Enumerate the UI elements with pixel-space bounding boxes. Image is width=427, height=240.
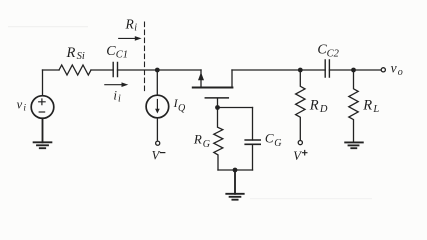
Ri arrow [119,36,142,41]
label V plus [293,149,302,163]
capacitor CC2 [325,60,329,77]
svg-text:V: V [152,149,161,163]
faint scan artifact line top-left [8,26,88,28]
svg-text:R: R [66,45,76,61]
label RL [362,97,379,114]
svg-text:G: G [203,139,210,150]
wire CG top lead [252,108,254,141]
svg-text:R: R [309,97,319,113]
svg-text:i: i [23,104,26,114]
faint scan artifact line bottom-right [250,198,372,200]
svg-text:i: i [134,23,137,34]
transistor M1 source lead with arrow [198,70,204,87]
resistor RG [214,108,223,171]
node RL [351,68,356,73]
wire vi to top [42,70,44,96]
svg-text:D: D [319,104,328,115]
wire CC1 to mosfet source [118,69,202,71]
label V minus [152,149,161,163]
svg-text:i: i [118,94,121,105]
label RSi [66,45,85,62]
transistor M1 gate bar [205,97,228,99]
node bottom [233,168,238,173]
resistor RL [349,70,358,142]
capacitor CG [245,140,260,144]
node A input [155,68,160,73]
label Ri [125,16,138,33]
wire IQ to V- terminal [156,118,158,140]
resistor RSi [59,65,91,75]
svg-text:R: R [125,16,135,31]
wire gate node to CG [218,107,253,109]
label RG [193,132,210,150]
label RD [309,97,328,115]
label CG [265,130,282,148]
label CC1 [106,44,128,61]
wire CG bottom lead [252,144,254,170]
svg-text:C1: C1 [116,50,128,61]
transistor M1 gate lead [217,99,219,108]
svg-text:C: C [106,44,116,59]
svg-text:Q: Q [178,103,186,114]
resistor RD [296,70,305,140]
terminal V- open circle [156,141,160,145]
ground (bottom middle) [226,170,243,200]
ground (below vi) [34,118,52,148]
svg-text:L: L [372,104,379,115]
svg-text:o: o [398,67,403,78]
capacitor CC1 [113,63,117,77]
svg-text:C2: C2 [327,49,340,60]
svg-text:G: G [274,138,281,149]
node drain RD [298,68,303,73]
label ii [113,87,121,104]
wire resistor to CC1 [91,69,113,71]
label CC2 [317,43,339,60]
svg-text:C: C [265,130,274,145]
terminal V+ open circle [298,141,302,145]
terminal vo open circle [381,68,385,72]
svg-text:R: R [193,132,202,147]
transistor M1 drain lead [231,70,233,87]
transistor M1 channel bar [193,87,233,89]
svg-text:V: V [293,149,302,163]
wire CC2 to vo terminal [329,69,381,71]
ii arrow [105,82,129,87]
label IQ [173,96,186,114]
svg-text:Si: Si [77,51,85,62]
wire node to IQ [156,70,158,95]
current source IQ [146,95,169,118]
label vi [17,97,27,113]
node gate [215,105,220,110]
svg-text:v: v [391,60,397,75]
voltage source vi [31,96,54,119]
dashed boundary line [144,22,146,92]
svg-text:R: R [362,97,372,113]
svg-text:i: i [113,87,117,102]
label vo [391,60,403,78]
svg-text:v: v [17,97,23,111]
ground (below RL) [345,142,363,148]
bottom wire RG CG junction [218,169,253,171]
wire top left [43,69,60,71]
wire drain to output [232,69,325,71]
